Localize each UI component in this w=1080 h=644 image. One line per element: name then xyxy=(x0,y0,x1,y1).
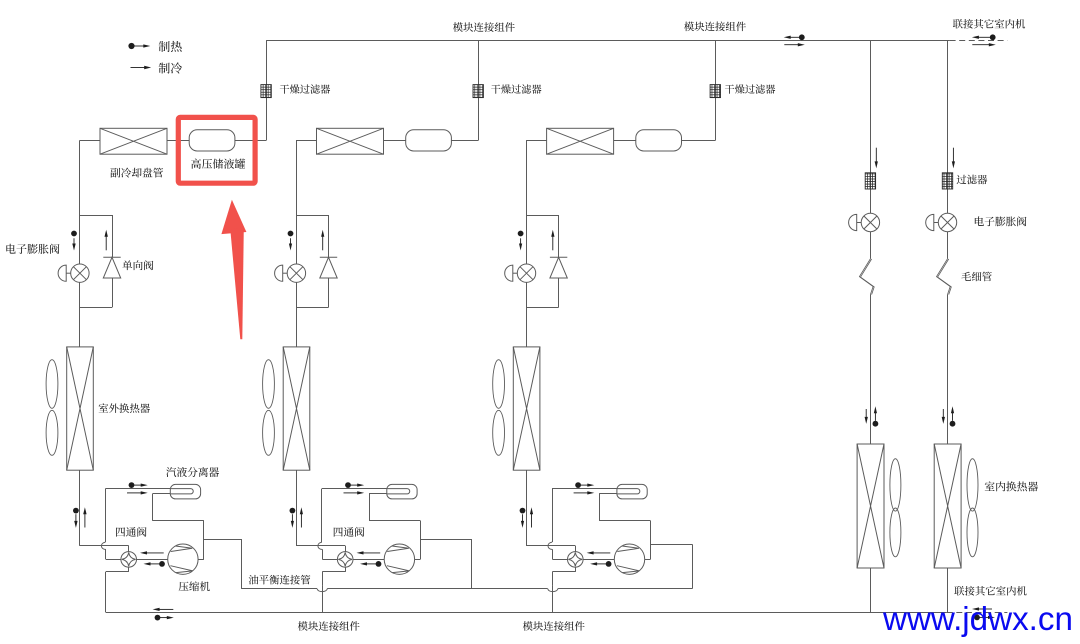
expansion valve cooling down arrow xyxy=(72,238,75,250)
dry filter module 1 xyxy=(261,85,271,98)
separator outlet wire xyxy=(153,520,204,522)
compressor discharge stub xyxy=(415,559,421,561)
wire to valve top xyxy=(80,545,129,547)
gas-liquid separator module 3 xyxy=(617,484,647,499)
dry filter module 3 xyxy=(710,85,720,98)
separator outlet wire xyxy=(599,520,650,522)
separator inlet wire xyxy=(322,488,387,490)
indoor heat exchanger 1 xyxy=(857,444,884,568)
liquid line down xyxy=(79,141,81,347)
subcooling coil module 1 xyxy=(100,128,167,154)
capillary tube indoor 2 xyxy=(937,259,951,295)
indoor exchanger down arrow xyxy=(942,409,945,424)
top gas bus xyxy=(266,40,950,42)
suction hop over valve-top wire xyxy=(318,542,322,549)
indoor unit 1 liquid drop xyxy=(870,41,872,259)
discharge wire xyxy=(137,559,168,561)
module 3 riser xyxy=(715,41,717,141)
oil tee drop xyxy=(471,539,473,589)
oil tee wire xyxy=(204,539,241,541)
top bus dashed continuation xyxy=(950,40,1008,42)
cooling discharge arrow xyxy=(140,551,164,554)
valve bottom wire xyxy=(322,571,345,573)
module 1 riser xyxy=(266,41,268,141)
label 模块连接组件 xyxy=(684,22,746,32)
oil pipe hop over module3 drop xyxy=(548,588,558,591)
indoor exchanger up arrow xyxy=(951,406,954,421)
compressor right riser xyxy=(650,521,652,560)
capillary tube indoor 1 xyxy=(859,259,873,295)
gas-liquid separator module 1 xyxy=(170,484,200,499)
check valve branch wire xyxy=(112,215,114,257)
expansion valve cooling down arrow xyxy=(519,238,522,250)
bottom bus heating arrow xyxy=(155,615,174,621)
heating up arrow xyxy=(530,507,533,527)
label 过滤器 xyxy=(957,175,988,185)
heating discharge arrow xyxy=(144,561,165,567)
cooling down arrow xyxy=(291,514,294,528)
valve left stem xyxy=(553,559,568,561)
bottom bus cooling arrow 2 xyxy=(972,607,992,610)
subcooling coil module 3 xyxy=(547,128,614,154)
four-way valve module 1 xyxy=(121,552,137,568)
legend heating symbol xyxy=(128,43,134,49)
svg-text:www.jdwx.cn: www.jdwx.cn xyxy=(882,601,1073,638)
branch bottom wire xyxy=(296,307,329,309)
branch bottom wire xyxy=(526,307,559,309)
valve bottom stem xyxy=(575,567,577,572)
label 电子膨胀阀 xyxy=(975,216,1027,226)
suction line lower xyxy=(322,549,324,559)
valve bottom wire xyxy=(106,571,129,573)
oil tee drop xyxy=(241,539,243,589)
valve bottom stem xyxy=(345,567,347,572)
branch top wire xyxy=(296,215,329,217)
top bus heating arrow 2 xyxy=(972,36,992,39)
separator outlet riser xyxy=(599,494,601,521)
module 2 riser xyxy=(478,41,480,141)
label 电子膨胀阀 xyxy=(6,244,59,254)
indoor fan 1 xyxy=(890,459,901,557)
electronic expansion valve module 2 xyxy=(275,264,306,282)
separator heating arrow xyxy=(129,482,148,488)
label 高压储液罐 xyxy=(191,159,245,169)
label 四通阀 xyxy=(116,527,146,537)
top bus cooling arrow 2 xyxy=(972,43,996,46)
indoor cooling down arrow xyxy=(952,148,955,169)
label 联接其它室内机 xyxy=(954,586,1026,596)
subcooling coil module 2 xyxy=(317,128,384,154)
branch top wire xyxy=(80,215,113,217)
suction line lower xyxy=(552,549,554,559)
indoor exchanger down arrow xyxy=(865,409,868,424)
indoor unit 1 liquid drop lower xyxy=(870,294,872,444)
label 制冷 xyxy=(159,62,182,73)
label 副冷却盘管 xyxy=(110,168,163,178)
branch top wire xyxy=(526,215,559,217)
four-way valve module 3 xyxy=(568,552,584,568)
check valve module 1 xyxy=(103,257,120,278)
label 油平衡连接管 xyxy=(249,575,311,585)
exchanger gas wire down xyxy=(526,470,528,546)
label 制热 xyxy=(159,41,182,52)
electronic expansion valve module 1 xyxy=(58,264,89,282)
coil left wire xyxy=(80,140,101,142)
top bus cooling arrow xyxy=(784,43,805,46)
separator heating arrow xyxy=(575,482,594,488)
separator inlet wire xyxy=(105,488,170,490)
compressor right riser xyxy=(420,521,422,560)
valve drop to bus upper xyxy=(322,572,324,585)
compressor right riser xyxy=(203,521,205,560)
dry filter module 2 xyxy=(473,85,483,98)
valve drop to bus upper xyxy=(552,572,554,585)
high pressure receiver module 3 xyxy=(636,130,682,151)
check valve heating up arrow xyxy=(105,230,108,251)
discharge wire xyxy=(353,559,384,561)
oil balance pipe xyxy=(241,588,317,590)
outdoor fan module 1 xyxy=(46,360,58,456)
valve left stem xyxy=(106,559,121,561)
label 汽液分离器 xyxy=(166,467,219,477)
oil tee wire xyxy=(420,539,471,541)
coil-tank wire xyxy=(614,140,636,142)
label 模块连接组件 xyxy=(453,22,515,32)
branch bottom wire xyxy=(80,307,113,309)
liquid line down xyxy=(526,141,528,347)
outdoor heat exchanger module 2 xyxy=(283,347,310,470)
top bus heating arrow xyxy=(784,36,804,39)
valve bottom stem xyxy=(128,567,130,572)
cooling down arrow xyxy=(74,514,77,528)
indoor unit 1 gas drop xyxy=(870,568,872,612)
check valve heating up arrow xyxy=(321,230,324,251)
separator outlet wire xyxy=(369,520,420,522)
compressor discharge stub xyxy=(198,559,204,561)
oil tee drop xyxy=(692,544,694,589)
heating discharge arrow xyxy=(360,561,381,567)
label 压缩机 xyxy=(179,581,210,591)
suction line lower xyxy=(105,549,107,559)
discharge wire xyxy=(583,559,614,561)
valve drop to bus xyxy=(105,572,107,612)
separator outlet stub xyxy=(153,493,171,495)
check valve branch wire lower xyxy=(328,278,330,307)
indoor heat exchanger 2 xyxy=(934,444,961,568)
check valve heating up arrow xyxy=(551,230,554,251)
check valve branch wire xyxy=(558,215,560,257)
exchanger gas wire down xyxy=(79,470,81,546)
separator outlet riser xyxy=(152,494,154,521)
suction line xyxy=(105,489,107,542)
indoor fan 2 xyxy=(967,459,978,557)
compressor module 3 xyxy=(614,544,644,574)
bottom bus heating arrow 2 xyxy=(974,615,995,621)
four-way valve module 2 xyxy=(337,552,353,568)
suction line xyxy=(552,489,554,542)
valve drop to bus lower xyxy=(322,593,324,613)
oil tee wire xyxy=(651,544,693,546)
label 干燥过滤器 xyxy=(491,84,541,93)
separator outlet riser xyxy=(369,494,371,521)
oil pipe hop over module2 drop xyxy=(317,588,327,591)
tank to riser wire xyxy=(235,140,266,142)
electronic expansion valve indoor 1 xyxy=(849,213,880,231)
electronic expansion valve indoor 2 xyxy=(926,213,957,231)
compressor module 2 xyxy=(384,544,414,574)
suction hop over valve-top wire xyxy=(101,542,105,549)
heating up arrow xyxy=(300,507,303,527)
label 干燥过滤器 xyxy=(725,84,775,93)
oil balance pipe xyxy=(558,588,692,590)
indoor unit 2 gas drop xyxy=(947,568,949,612)
outdoor heat exchanger module 1 xyxy=(67,347,94,470)
outdoor fan module 2 xyxy=(263,360,275,456)
valve top stem xyxy=(345,546,347,552)
tank to riser wire xyxy=(451,140,478,142)
liquid line down xyxy=(296,141,298,347)
wire to valve top xyxy=(296,545,345,547)
check valve branch wire xyxy=(328,215,330,257)
label 联接其它室内机 xyxy=(953,19,1025,29)
label 干燥过滤器 xyxy=(280,84,330,93)
cooling discharge arrow xyxy=(587,551,611,554)
outdoor fan module 3 xyxy=(493,360,505,456)
separator cooling arrow xyxy=(574,491,595,494)
valve top stem xyxy=(128,546,130,552)
legend heating arrow xyxy=(133,44,150,47)
high pressure receiver module 1 xyxy=(189,130,235,151)
bottom bus cooling arrow xyxy=(153,608,174,611)
expansion valve cooling down arrow xyxy=(289,238,292,250)
valve top stem xyxy=(575,546,577,552)
exchanger gas wire down xyxy=(296,470,298,546)
valve drop crossing oil line xyxy=(552,585,554,592)
valve drop crossing oil line xyxy=(322,585,324,592)
gas-liquid separator module 2 xyxy=(387,484,417,499)
bottom gas bus xyxy=(106,612,947,614)
suction line xyxy=(321,489,323,542)
label 模块连接组件 xyxy=(298,621,360,631)
heating up arrow xyxy=(83,507,86,527)
red annotation arrow xyxy=(221,200,246,339)
separator cooling arrow xyxy=(127,491,148,494)
indoor cooling down arrow xyxy=(875,148,878,169)
compressor discharge stub xyxy=(645,559,651,561)
label 室外换热器 xyxy=(99,403,150,413)
tank to riser wire xyxy=(682,140,716,142)
indoor unit 2 liquid drop lower xyxy=(947,294,949,444)
check valve branch wire lower xyxy=(558,278,560,307)
strainer filter indoor 2 xyxy=(942,173,952,189)
bottom bus dashed continuation xyxy=(947,612,1008,614)
coil-tank wire xyxy=(384,140,406,142)
indoor exchanger up arrow xyxy=(874,406,877,421)
coil-tank wire xyxy=(167,140,189,142)
oil balance pipe xyxy=(328,588,548,590)
separator cooling arrow xyxy=(344,491,365,494)
compressor module 1 xyxy=(168,544,198,574)
separator outlet stub xyxy=(369,493,387,495)
valve left stem xyxy=(322,559,337,561)
suction hop over valve-top wire xyxy=(548,542,552,549)
cooling down arrow xyxy=(521,514,524,528)
legend cooling arrow xyxy=(131,66,152,69)
cooling discharge arrow xyxy=(357,551,381,554)
label 室内换热器 xyxy=(985,481,1038,491)
valve drop to bus lower xyxy=(552,593,554,613)
electronic expansion valve module 3 xyxy=(505,264,536,282)
indoor unit 2 liquid drop xyxy=(947,41,949,259)
label 四通阀 xyxy=(334,527,364,537)
wire to valve top xyxy=(526,545,575,547)
coil left wire xyxy=(526,140,547,142)
label 毛细管 xyxy=(961,272,991,282)
high pressure receiver module 2 xyxy=(406,130,452,151)
check valve branch wire lower xyxy=(112,278,114,307)
outdoor heat exchanger module 3 xyxy=(513,347,540,470)
check valve module 2 xyxy=(320,257,337,278)
valve bottom wire xyxy=(552,571,575,573)
separator heating arrow xyxy=(345,482,364,488)
separator outlet stub xyxy=(599,493,617,495)
label 单向阀 xyxy=(122,260,153,270)
red highlight box around receiver tank xyxy=(178,117,255,183)
coil left wire xyxy=(296,140,317,142)
label 模块连接组件 xyxy=(523,621,585,631)
separator inlet wire xyxy=(552,488,617,490)
heating discharge arrow xyxy=(590,561,611,567)
check valve module 3 xyxy=(550,257,567,278)
strainer filter indoor 1 xyxy=(865,173,875,189)
